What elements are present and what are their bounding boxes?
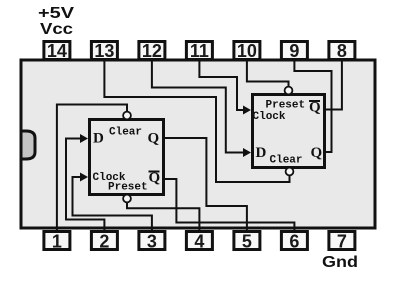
svg-text:+5V: +5V — [38, 5, 74, 22]
svg-text:Q: Q — [148, 131, 160, 147]
svg-text:14: 14 — [47, 41, 67, 61]
wire pin13 to FF2 Clear — [104, 58, 289, 182]
IC body — [21, 60, 375, 228]
FF2 Clock input arrow — [243, 106, 251, 115]
wire pin8 to FF2 Qbar — [326, 58, 342, 110]
svg-text:Preset: Preset — [266, 100, 306, 112]
svg-text:Clear: Clear — [270, 155, 303, 167]
wire pin12 to FF2 D — [152, 58, 245, 153]
svg-text:Gnd: Gnd — [322, 254, 358, 271]
svg-text:5: 5 — [242, 232, 252, 252]
FF1 Preset bubble — [123, 195, 131, 203]
wire pin4 to FF1 Preset — [127, 203, 199, 232]
pin 3 — [139, 232, 165, 252]
pin 8 — [329, 41, 355, 61]
pin 13 — [91, 41, 117, 61]
pin 7 — [329, 232, 355, 252]
FF2 Clear bubble — [286, 168, 294, 176]
pin 6 — [281, 232, 307, 252]
wire pin3 to FF1 Clock — [73, 177, 152, 232]
svg-text:Q: Q — [311, 145, 323, 161]
svg-text:Clock: Clock — [253, 111, 286, 123]
pin 11 — [186, 41, 212, 61]
wire pin11 to FF2 Clock — [199, 58, 245, 110]
pin 5 — [234, 232, 260, 252]
FF1 D input arrow — [80, 134, 88, 143]
notch — [21, 131, 35, 159]
svg-text:D: D — [256, 145, 267, 161]
pin 14 — [44, 41, 70, 61]
wire pin2 to FF1 D — [66, 139, 104, 233]
pin 1 — [44, 232, 70, 252]
wire pin9 to FF2 Q — [294, 58, 331, 152]
svg-text:1: 1 — [52, 232, 62, 252]
FF2 D input arrow — [243, 148, 251, 157]
svg-text:7: 7 — [337, 232, 347, 252]
svg-text:D: D — [93, 131, 104, 147]
svg-text:3: 3 — [147, 232, 157, 252]
FF1 Clock input arrow — [80, 173, 88, 182]
pin 12 — [139, 41, 165, 61]
flip-flop U1 (left) — [90, 120, 164, 195]
wire FF1 Qbar to pin6 — [165, 179, 294, 232]
svg-text:Preset: Preset — [108, 182, 148, 194]
wire pin1 to FF1 Clear — [57, 105, 127, 233]
wire pin10 to FF2 Preset — [247, 58, 289, 87]
pin 2 — [91, 232, 117, 252]
svg-text:Clear: Clear — [109, 127, 142, 139]
svg-text:Vcc: Vcc — [40, 21, 73, 38]
svg-text:6: 6 — [289, 232, 299, 252]
svg-text:2: 2 — [99, 232, 109, 252]
svg-text:4: 4 — [194, 232, 204, 252]
pin 10 — [234, 41, 260, 61]
pin 4 — [186, 232, 212, 252]
FF2 Preset bubble — [285, 87, 293, 95]
FF1 Clear bubble — [123, 112, 131, 120]
pin 9 — [281, 41, 307, 61]
wire FF1 Q to pin5 — [165, 138, 247, 232]
flip-flop U2 (right) — [253, 95, 325, 168]
